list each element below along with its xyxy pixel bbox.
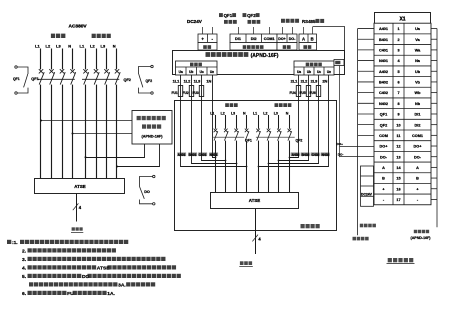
wire sampling 1L2 (192, 97, 237, 164)
fuse FU2 (182, 75, 193, 97)
svg-text:N402: N402 (322, 153, 330, 157)
wire main L3 lower (62, 85, 64, 179)
svg-text:7: 7 (397, 91, 399, 95)
junction backup L1 tap (85, 156, 87, 158)
X1 row 7 C402 (379, 91, 421, 95)
wire backup N lower (116, 85, 118, 179)
svg-text:13: 13 (396, 155, 400, 159)
svg-text:12: 12 (396, 145, 400, 149)
wire sampling 1L3 (202, 97, 226, 161)
svg-text:L3: L3 (231, 111, 235, 115)
svg-text:FU4: FU4 (289, 91, 295, 95)
svg-text:Un: Un (327, 70, 331, 74)
wire number B402 (301, 153, 310, 158)
breaker inner QF1 (213, 129, 249, 141)
svg-text:A401: A401 (178, 153, 186, 157)
svg-text:DO-: DO- (289, 37, 296, 41)
svg-text:C402: C402 (379, 91, 388, 95)
junction 1L1 tap (246, 166, 248, 168)
junction 2L2 tap (278, 160, 280, 162)
svg-text:A402: A402 (379, 70, 388, 74)
svg-text:(APND-16F): (APND-16F) (251, 53, 279, 59)
wire inner backup L3 upper (278, 115, 280, 129)
note line 3 (22, 257, 165, 263)
terminal stub x282 (282, 27, 284, 34)
label 通信 (303, 45, 307, 49)
junction main N tap (72, 133, 74, 135)
annotation 接QF1辅 (219, 13, 236, 18)
svg-text:(APND-16F): (APND-16F) (411, 236, 432, 240)
terminal stub x212.2 (212, 27, 214, 34)
svg-text:1L3: 1L3 (194, 79, 202, 84)
svg-text:ATSE: ATSE (74, 184, 85, 189)
svg-text:DI1: DI1 (415, 113, 421, 117)
X1 row 5 A402 (379, 70, 421, 74)
svg-text:DO+: DO+ (278, 37, 286, 41)
svg-text:DI2: DI2 (251, 37, 257, 41)
terminal stub x312.2 (312, 27, 314, 34)
svg-text:A: A (382, 166, 385, 170)
X1 row 6 B402 (379, 81, 421, 85)
junction 1N tap (215, 157, 217, 159)
wire sampling 2N (259, 75, 329, 167)
wire tap main N to sensor (73, 133, 133, 135)
title 端子接线图 underlined (388, 258, 392, 262)
svg-text:DO: DO (144, 190, 150, 194)
terminal group 输出 (277, 34, 297, 50)
terminal group 电源 (198, 34, 217, 50)
X1 row 4 N401 (379, 59, 421, 63)
svg-text:DI2: DI2 (415, 123, 421, 127)
svg-text:C402: C402 (312, 153, 320, 157)
svg-text:1A.: 1A. (107, 291, 115, 297)
label inner 备用电源 (275, 103, 279, 107)
svg-text:AC380V: AC380V (69, 23, 88, 29)
junction backup N tap (116, 166, 118, 168)
svg-text:FU3: FU3 (192, 91, 198, 95)
svg-text:B: B (382, 177, 385, 181)
wire inner backup L1 upper (258, 115, 260, 129)
fuse FU6 (309, 75, 320, 97)
wire number A401 (177, 153, 186, 158)
wire number C401 (198, 153, 207, 158)
svg-text:3A.: 3A. (118, 283, 126, 289)
junction 1L3 tap (225, 160, 227, 162)
aux contact QF1 (15, 66, 28, 94)
svg-text:2.: 2. (22, 249, 27, 255)
label backup power 备用电源 (92, 34, 96, 38)
note line 2 (22, 248, 116, 254)
voltage input group 主电源 (176, 61, 218, 75)
svg-text:N401: N401 (379, 59, 388, 63)
wire number N402 (321, 153, 330, 158)
wire DO feed vertical (339, 66, 341, 158)
junction main L1 tap (40, 120, 42, 122)
wire sensor to backup N (117, 144, 160, 167)
cable bus left of X1 (358, 29, 374, 236)
svg-text:2L1: 2L1 (291, 79, 299, 84)
svg-text:1N: 1N (206, 79, 211, 84)
breaker inner QF2 (256, 129, 295, 141)
svg-text:DO+: DO+ (380, 145, 389, 149)
wire main L1 lower (40, 85, 42, 179)
sensor main box APND-16F (173, 51, 345, 75)
label 接传感器 (414, 230, 417, 233)
wire backup N upper (116, 49, 118, 70)
svg-text:4.: 4. (22, 266, 27, 272)
svg-text:16: 16 (396, 187, 400, 191)
terminal stub x303.5 (303, 27, 305, 34)
svg-text:10: 10 (396, 123, 400, 127)
svg-text:N: N (113, 44, 116, 49)
svg-text:QF2: QF2 (124, 78, 131, 82)
wire inner main N upper (246, 115, 248, 129)
label 主回路 inner underlined (240, 261, 244, 265)
label 主回路 underlined (72, 227, 75, 230)
svg-text:N401: N401 (210, 153, 218, 157)
annotation 接QF2辅 (243, 13, 260, 18)
svg-text:Nb: Nb (415, 102, 421, 106)
svg-text:2: 2 (397, 38, 399, 42)
annotation 助触点 right (248, 20, 252, 24)
svg-text:X1: X1 (399, 16, 405, 22)
X1 row 17 - (383, 198, 419, 202)
svg-text:L3: L3 (56, 44, 61, 49)
svg-text:1L2: 1L2 (184, 79, 192, 84)
DC24V connector block (361, 166, 374, 206)
wire inner main L2 lower (225, 141, 227, 192)
svg-text:QF1: QF1 (31, 77, 38, 81)
fuse FU5 (299, 75, 310, 97)
DO contact (140, 175, 156, 205)
wire inner main N lower (246, 141, 248, 192)
svg-text:L3: L3 (274, 111, 278, 115)
wire sampling 2L2 (279, 97, 309, 161)
svg-text:DO+: DO+ (337, 142, 344, 146)
wire inner backup N upper (289, 115, 291, 129)
svg-text:QF1: QF1 (13, 77, 20, 81)
svg-text:4: 4 (258, 236, 261, 241)
svg-text:2L2: 2L2 (301, 79, 309, 84)
wire number N401 (209, 153, 218, 158)
wire sampling 2L1 (290, 97, 299, 158)
label inner 主电源 (225, 103, 229, 107)
svg-text:9: 9 (397, 113, 399, 117)
note line 1 (7, 240, 128, 246)
wire sensor to backup L1 (86, 144, 145, 158)
X1 row 3 C401 (379, 49, 421, 53)
wire backup L3 lower (106, 85, 108, 179)
svg-text:DC24V: DC24V (187, 19, 203, 24)
X1 row 9 QF1 (380, 113, 421, 117)
annotation 常开触点 (281, 19, 285, 23)
svg-text:L2: L2 (90, 44, 95, 49)
wire ATSE output (76, 193, 78, 221)
wire sampling 1N (213, 75, 216, 158)
svg-text:Ub: Ub (189, 70, 193, 74)
wire backup L2 lower (96, 85, 98, 179)
junction 1L2 tap (236, 163, 238, 165)
wire number B401 (188, 153, 197, 158)
wire main N lower (72, 85, 74, 179)
wire DO- to X1 (340, 156, 375, 158)
wire inner main L3 lower (236, 141, 238, 192)
wire DO+ to X1 (340, 146, 375, 148)
svg-text:FU6: FU6 (309, 91, 315, 95)
connector block small (334, 60, 344, 66)
label 输出 (283, 45, 287, 49)
svg-text:C401: C401 (379, 49, 388, 53)
svg-text:L1: L1 (210, 111, 214, 115)
svg-text:FU2: FU2 (182, 91, 188, 95)
terminal stub x238 (238, 27, 240, 34)
wire tap main L1 to sensor (41, 120, 132, 122)
svg-text:QF2: QF2 (296, 138, 303, 142)
wire sampling 1L1 (181, 97, 247, 167)
wire inner backup N lower (289, 141, 291, 192)
wire inner backup L2 lower (268, 141, 270, 192)
svg-text:QF2: QF2 (247, 13, 256, 18)
svg-text:B402: B402 (379, 81, 388, 85)
svg-text:B402: B402 (302, 153, 310, 157)
wire main L2 upper (51, 49, 53, 70)
label main power 主电源 (51, 34, 55, 38)
voltage input group 备用电源 (294, 61, 334, 75)
svg-text:B: B (311, 36, 314, 41)
label 主电源 (sensor) (190, 63, 194, 67)
wire number A402 (291, 153, 300, 158)
wire inner main L2 upper (225, 115, 227, 129)
ATSE box (principle) (35, 179, 125, 194)
note line 7 (22, 291, 116, 297)
aux contact QF2 (139, 65, 154, 94)
X1 row 11 COM (379, 134, 423, 138)
svg-text:6.: 6. (22, 291, 27, 297)
wire inner ATSE output (255, 209, 257, 255)
wire inner main L3 upper (236, 115, 238, 129)
conductor-count slash 4 (73, 203, 79, 210)
svg-text:1: 1 (397, 27, 399, 31)
svg-text:QF2: QF2 (146, 79, 153, 83)
svg-text:(APND-16F): (APND-16F) (141, 135, 163, 139)
svg-text:A401: A401 (379, 27, 388, 31)
svg-text:N: N (286, 111, 289, 115)
label 配电箱内 (301, 224, 305, 228)
svg-text:N: N (68, 44, 71, 49)
svg-text:DO+: DO+ (414, 145, 423, 149)
svg-text:6: 6 (397, 81, 399, 85)
wire inner backup L1 lower (258, 141, 260, 192)
label 开关量输入 (243, 45, 247, 49)
fuse FU3 (192, 75, 203, 97)
X1 row 16 + (382, 187, 419, 191)
junction 2L1 tap (289, 157, 291, 159)
svg-text:4: 4 (79, 205, 82, 210)
wire inner main L1 upper (215, 115, 217, 129)
terminal stub x269.2 (269, 27, 271, 34)
svg-text:DO-: DO- (414, 155, 422, 159)
wire main N upper (72, 49, 74, 70)
svg-text:B401: B401 (379, 38, 388, 42)
svg-text:17: 17 (396, 198, 400, 202)
svg-text:COM: COM (379, 134, 388, 138)
sensor box APND-16F (principle) (132, 111, 172, 145)
svg-text:L1: L1 (80, 44, 85, 49)
svg-text:Un: Un (210, 70, 214, 74)
svg-text:8: 8 (397, 102, 399, 106)
svg-text::1.: :1. (12, 240, 18, 246)
svg-text:DO-: DO- (338, 153, 344, 157)
wire inner backup L3 lower (278, 141, 280, 192)
svg-text:COM1: COM1 (412, 134, 423, 138)
svg-text:QF2: QF2 (380, 123, 387, 127)
cable bus right of X1 to sensor (431, 29, 437, 228)
terminal group 通信 (299, 34, 317, 50)
breaker QF2 4-pole (82, 69, 120, 84)
svg-text:RS485: RS485 (302, 19, 316, 24)
svg-text:FU5: FU5 (299, 91, 305, 95)
svg-text:1L1: 1L1 (173, 79, 181, 84)
svg-text:3.: 3. (22, 257, 27, 263)
svg-text:DI1: DI1 (235, 37, 241, 41)
svg-text:5: 5 (397, 70, 399, 74)
svg-text:5.: 5. (22, 274, 27, 280)
svg-text:3: 3 (397, 49, 399, 53)
svg-text:N: N (243, 111, 246, 115)
svg-text:Ub: Ub (307, 70, 311, 74)
svg-text:A402: A402 (292, 153, 300, 157)
svg-text:B: B (416, 177, 419, 181)
note line 6 (29, 282, 155, 288)
wire sampling 2L3 (269, 97, 319, 164)
label 信号电缆 (353, 237, 357, 241)
terminal strip X1 header (375, 13, 431, 24)
terminal group 开关量输入 (230, 34, 277, 50)
wire RS485 B routing (313, 27, 345, 60)
svg-text:2L3: 2L3 (311, 79, 319, 84)
svg-text:ATSE: ATSE (249, 198, 260, 203)
X1 row 8 N402 (379, 102, 421, 106)
wire main L3 upper (62, 49, 64, 70)
label 接配电箱 (360, 224, 364, 228)
annotation 助触点 left (224, 20, 228, 24)
X1 row 14 A (382, 166, 419, 170)
svg-text:A: A (416, 166, 419, 170)
svg-text:L2: L2 (263, 111, 267, 115)
junction 2N tap (258, 166, 260, 168)
svg-text:L2: L2 (46, 44, 51, 49)
wire backup L1 upper (85, 49, 87, 70)
wire backup L3 upper (106, 49, 108, 70)
note line 4 (22, 265, 176, 271)
svg-text:Vb: Vb (415, 81, 421, 85)
svg-text:QF1: QF1 (224, 13, 233, 18)
svg-text:DC24V: DC24V (361, 192, 373, 196)
svg-text:N402: N402 (379, 102, 388, 106)
svg-text:QF1: QF1 (380, 113, 387, 117)
X1 row 10 QF2 (380, 123, 421, 127)
wire main L2 lower (51, 85, 53, 179)
svg-text:11: 11 (396, 134, 400, 138)
svg-text:L1: L1 (253, 111, 257, 115)
svg-text:A: A (302, 36, 305, 41)
svg-text:Ub: Ub (415, 70, 421, 74)
svg-text:C401: C401 (199, 153, 207, 157)
wire inner backup L2 upper (268, 115, 270, 129)
svg-text:+: + (201, 36, 204, 41)
svg-text:FU1: FU1 (171, 91, 177, 95)
distribution box 配电箱 (175, 101, 337, 231)
breaker QF1 4-pole (38, 69, 76, 84)
terminal stub x253.7 (253, 27, 255, 34)
conductor-count slash 4 inner (252, 235, 258, 242)
label 备用电源 (sensor) (306, 63, 310, 67)
svg-text:Wa: Wa (415, 49, 421, 53)
ATSE box (inner) (211, 193, 299, 209)
wire backup L2 upper (96, 49, 98, 70)
wire number C402 (311, 153, 320, 158)
annotation RS485通信 (302, 19, 324, 24)
svg-text:L3: L3 (101, 44, 106, 49)
svg-text:Uc: Uc (200, 70, 204, 74)
X1 row 15 B (382, 177, 419, 181)
sensor box text line2 源传感器 (142, 124, 146, 128)
label 电源 (203, 45, 207, 49)
X1 row 2 B401 (379, 38, 421, 42)
sensor title 三相双电源传感器(APND-16F) (206, 52, 279, 59)
svg-text:Wb: Wb (415, 91, 422, 95)
svg-text:15: 15 (396, 177, 400, 181)
terminal strip X1 body (374, 23, 431, 205)
terminal stub x202.7 (202, 27, 204, 34)
svg-text:Ua: Ua (297, 70, 301, 74)
svg-text:DO-: DO- (380, 155, 388, 159)
wire inner main L1 lower (215, 141, 217, 192)
fuse FU4 (289, 75, 300, 97)
wire main L1 upper (40, 49, 42, 70)
svg-text:B401: B401 (189, 153, 197, 157)
X1 row 13 DO- (380, 155, 422, 159)
svg-text:Uc: Uc (317, 70, 321, 74)
svg-text:L1: L1 (35, 44, 40, 49)
svg-text:Ua: Ua (179, 70, 183, 74)
X1 row 1 A401 (379, 27, 421, 31)
note line 5 (22, 274, 181, 280)
sensor box text line1 三相交流双电 (137, 116, 141, 120)
svg-text:2N: 2N (322, 79, 327, 84)
fuse FU1 (171, 75, 182, 97)
wire backup L1 lower (85, 85, 87, 179)
junction 2L3 tap (268, 163, 270, 165)
terminal stub x292 (292, 27, 294, 34)
X1 row 12 DO+ (380, 145, 423, 149)
svg-text:L2: L2 (221, 111, 225, 115)
svg-text:COM1: COM1 (264, 37, 275, 41)
